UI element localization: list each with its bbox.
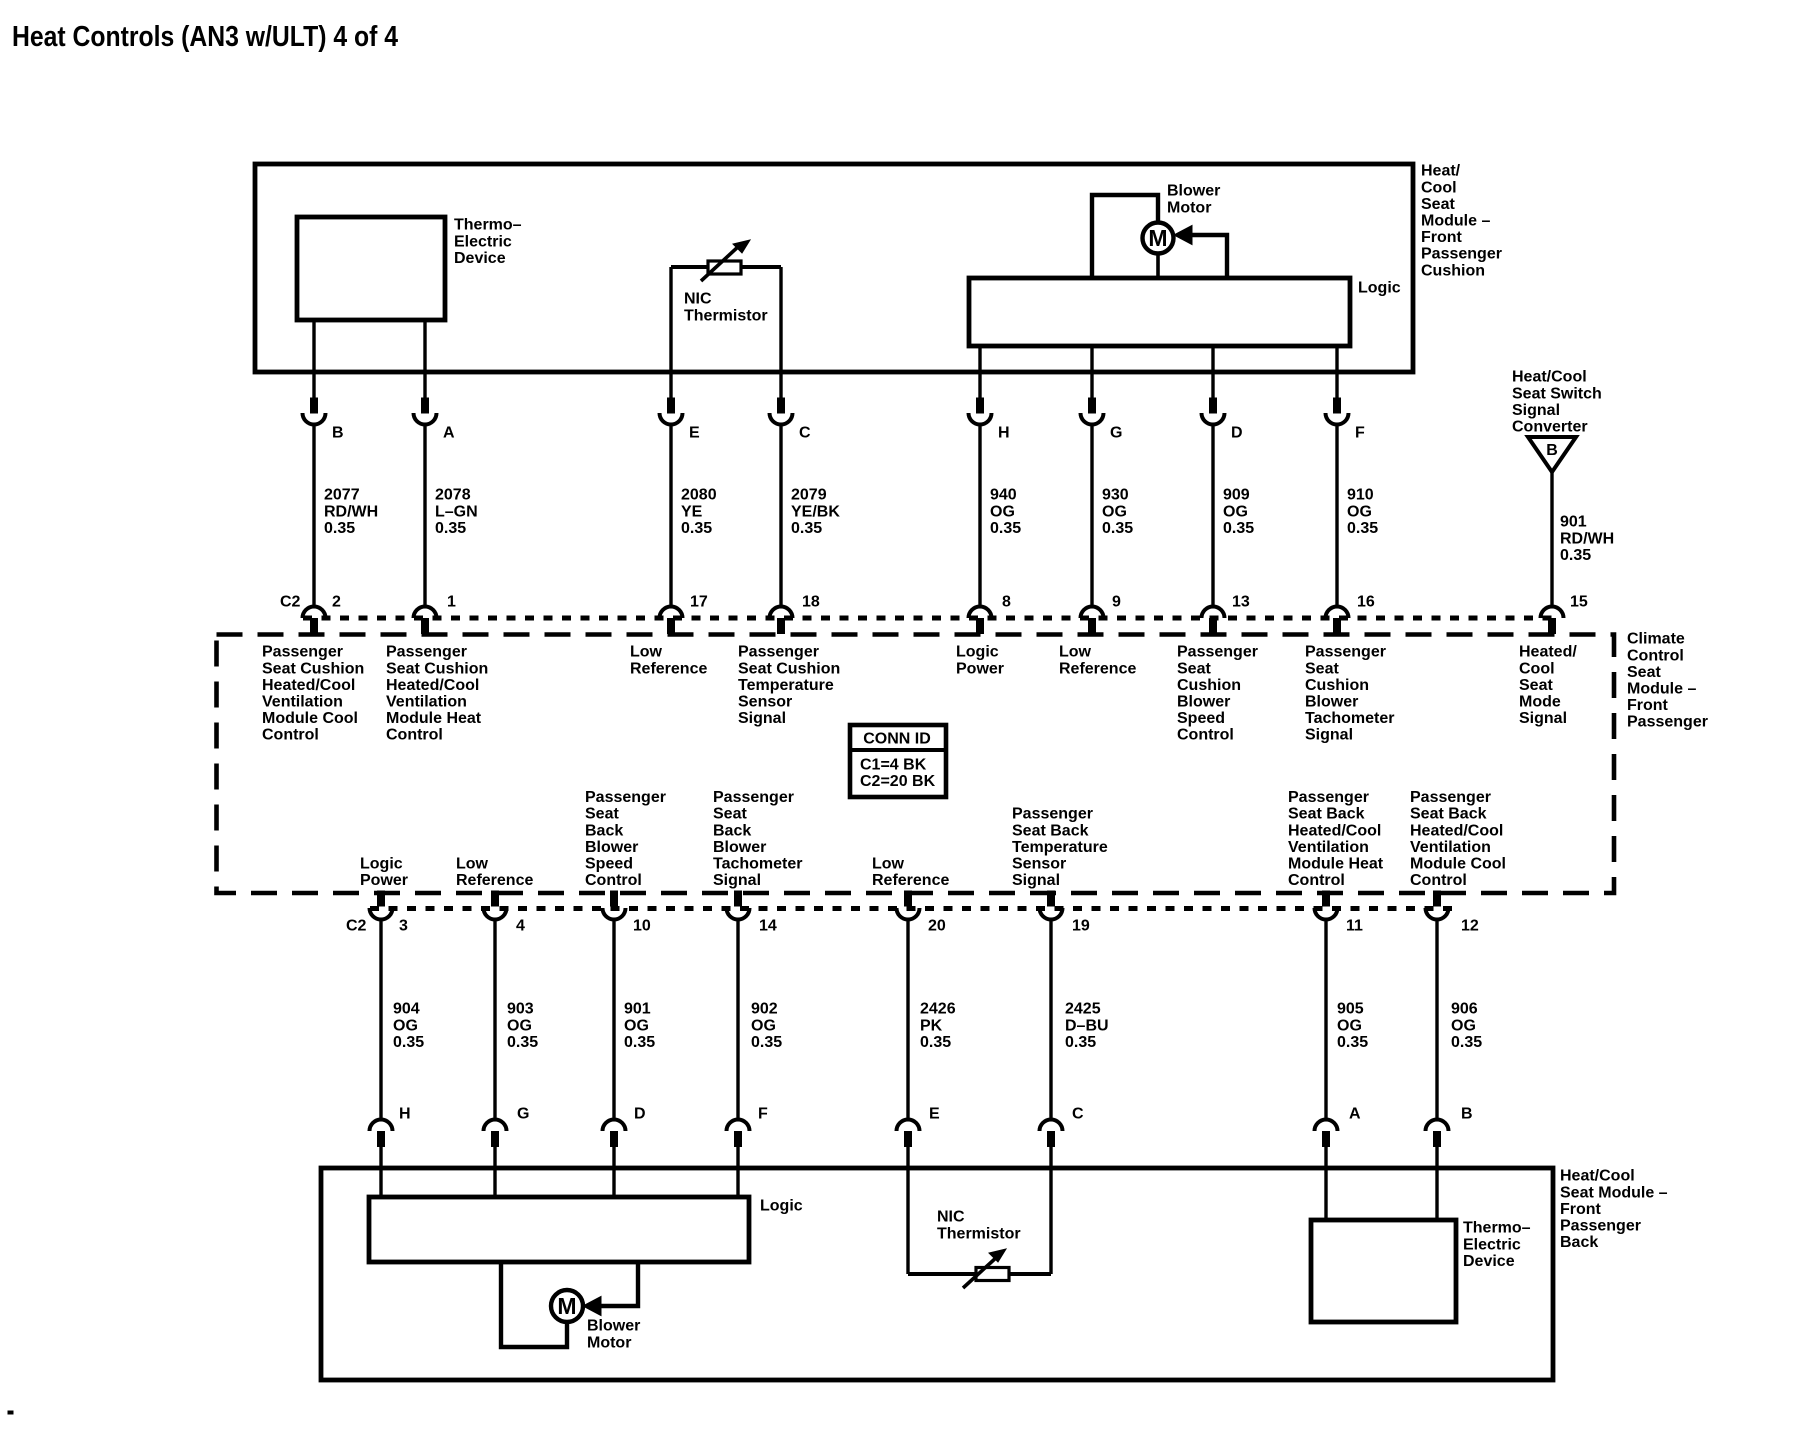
wire pin G to logic (back) bbox=[493, 1146, 496, 1197]
connector designator C2 (row 2) bbox=[346, 918, 367, 935]
pin number 17 bbox=[690, 594, 708, 611]
svg-text:YE/BK: YE/BK bbox=[791, 503, 840, 520]
label Logic (cushion) bbox=[1358, 280, 1401, 297]
svg-text:901: 901 bbox=[1560, 514, 1587, 531]
pin letter C (bottom) bbox=[1072, 1106, 1084, 1123]
wire label 940 OG 0.35 bbox=[990, 487, 1021, 537]
svg-text:F: F bbox=[1355, 425, 1365, 442]
net label Low Reference bbox=[456, 856, 533, 890]
svg-text:RD/WH: RD/WH bbox=[1560, 530, 1614, 547]
svg-text:Electric: Electric bbox=[454, 233, 512, 250]
svg-text:10: 10 bbox=[633, 918, 651, 935]
connector pin 12 (climate module row 2) bbox=[1426, 891, 1449, 920]
svg-text:0.35: 0.35 bbox=[990, 520, 1021, 537]
svg-text:RD/WH: RD/WH bbox=[324, 503, 378, 520]
svg-text:0.35: 0.35 bbox=[507, 1034, 538, 1051]
svg-text:F: F bbox=[758, 1106, 768, 1123]
svg-text:NIC: NIC bbox=[937, 1209, 965, 1226]
svg-text:Motor: Motor bbox=[587, 1334, 631, 1351]
net label Passenger Seat Cushion Heated/Cool Ventilation Module Heat Control bbox=[386, 644, 488, 744]
wire RT1 pin C lead bbox=[779, 267, 782, 399]
svg-text:M: M bbox=[557, 1293, 576, 1319]
connector pin B (top module) bbox=[303, 398, 326, 425]
svg-text:Seat: Seat bbox=[1305, 660, 1339, 677]
svg-text:Module –: Module – bbox=[1421, 213, 1490, 230]
wire pin D to logic (back) bbox=[612, 1146, 615, 1197]
svg-text:OG: OG bbox=[1451, 1017, 1476, 1034]
wire 2080 YE bbox=[669, 425, 672, 609]
svg-text:C: C bbox=[1072, 1106, 1084, 1123]
svg-text:Cushion: Cushion bbox=[1305, 677, 1369, 694]
svg-text:YE: YE bbox=[681, 503, 703, 520]
svg-text:Front: Front bbox=[1421, 229, 1463, 246]
net label Passenger Seat Back Heated/Cool Ventilation Module Heat Control bbox=[1288, 789, 1384, 889]
svg-text:12: 12 bbox=[1461, 918, 1479, 935]
svg-text:Heated/Cool: Heated/Cool bbox=[1288, 822, 1381, 839]
pin letter C bbox=[799, 425, 811, 442]
svg-text:Control: Control bbox=[1288, 872, 1345, 889]
svg-text:B: B bbox=[332, 425, 344, 442]
connector pin 10 (climate module row 2) bbox=[603, 891, 626, 920]
connector pin 13 (climate module row 1) bbox=[1202, 607, 1225, 634]
wire RT1 pin E lead bbox=[669, 267, 672, 399]
svg-text:OG: OG bbox=[990, 503, 1015, 520]
label Blower Motor (cushion) bbox=[1167, 183, 1220, 217]
svg-text:Seat Cushion: Seat Cushion bbox=[262, 660, 364, 677]
svg-text:Passenger: Passenger bbox=[585, 789, 666, 806]
svg-text:0.35: 0.35 bbox=[624, 1034, 655, 1051]
svg-text:Logic: Logic bbox=[956, 644, 999, 661]
in-line connector C2 row 1 (dotted) bbox=[303, 616, 1560, 621]
pin number 3 bbox=[399, 918, 408, 935]
svg-text:8: 8 bbox=[1002, 594, 1011, 611]
svg-text:910: 910 bbox=[1347, 487, 1374, 504]
wire label 901 RD/WH 0.35 bbox=[1560, 514, 1614, 564]
svg-text:940: 940 bbox=[990, 487, 1017, 504]
svg-text:Reference: Reference bbox=[456, 872, 533, 889]
connector pin D (bottom module) bbox=[603, 1120, 626, 1147]
wire TED2 pin B lead bbox=[1435, 1146, 1438, 1220]
svg-text:Low: Low bbox=[1059, 644, 1092, 661]
connector pin 15 (climate module row 1) bbox=[1541, 607, 1564, 634]
svg-text:Passenger: Passenger bbox=[386, 644, 467, 661]
svg-text:0.35: 0.35 bbox=[1223, 520, 1254, 537]
svg-text:Heated/Cool: Heated/Cool bbox=[386, 677, 479, 694]
module box U1 Heat/Cool Seat Module - Front Passenger Cushion bbox=[255, 164, 1413, 372]
svg-text:Seat Back: Seat Back bbox=[1012, 822, 1089, 839]
net label Passenger Seat Back Heated/Cool Ventilation Module Cool Control bbox=[1410, 789, 1506, 889]
svg-text:OG: OG bbox=[1347, 503, 1372, 520]
svg-text:Seat: Seat bbox=[585, 806, 619, 823]
svg-text:2078: 2078 bbox=[435, 487, 471, 504]
pin number 12 bbox=[1461, 918, 1479, 935]
svg-text:D: D bbox=[634, 1106, 646, 1123]
pin number 13 bbox=[1232, 594, 1250, 611]
pin number 10 bbox=[633, 918, 651, 935]
svg-text:0.35: 0.35 bbox=[1102, 520, 1133, 537]
thermistor RT1 NIC Thermistor (cushion) bbox=[671, 240, 781, 281]
pin letter A bbox=[443, 425, 455, 442]
connector pin F (bottom module) bbox=[727, 1119, 750, 1146]
svg-text:Blower: Blower bbox=[585, 839, 638, 856]
svg-text:E: E bbox=[929, 1106, 940, 1123]
svg-text:Thermo–: Thermo– bbox=[1463, 1220, 1531, 1237]
label Climate Control Seat Module - Front Passenger bbox=[1627, 631, 1708, 731]
pin number 11 bbox=[1346, 918, 1363, 935]
wire 903 OG bbox=[493, 920, 496, 1121]
svg-text:Ventilation: Ventilation bbox=[1288, 839, 1369, 856]
title Heat Controls (AN3 w/ULT) 4 of 4 bbox=[12, 21, 398, 53]
svg-text:0.35: 0.35 bbox=[1337, 1034, 1368, 1051]
svg-text:Module Cool: Module Cool bbox=[1410, 856, 1506, 873]
svg-text:NIC: NIC bbox=[684, 291, 712, 308]
svg-text:17: 17 bbox=[690, 594, 708, 611]
pin number 18 bbox=[802, 594, 820, 611]
svg-text:Low: Low bbox=[630, 644, 663, 661]
net label Passenger Seat Cushion Heated/Cool Ventilation Module Cool Control bbox=[262, 644, 364, 744]
svg-text:Cool: Cool bbox=[1519, 660, 1555, 677]
module box U3 Heat/Cool Seat Module - Front Passenger Back bbox=[321, 1168, 1553, 1380]
net label Passenger Seat Cushion Blower Speed Control bbox=[1177, 644, 1258, 744]
thermo-electric device TED1 (cushion) bbox=[297, 217, 445, 320]
connector pin C (top module) bbox=[770, 398, 793, 425]
svg-text:E: E bbox=[689, 425, 700, 442]
svg-text:Device: Device bbox=[1463, 1253, 1515, 1270]
svg-text:Thermistor: Thermistor bbox=[937, 1225, 1021, 1242]
svg-text:G: G bbox=[517, 1106, 529, 1123]
wire label 903 OG 0.35 bbox=[507, 1001, 538, 1051]
stray period mark bbox=[8, 1411, 13, 1414]
wire RT2 pin C lead bbox=[1049, 1146, 1052, 1274]
connector pin G (top module) bbox=[1081, 398, 1104, 425]
wire label 930 OG 0.35 bbox=[1102, 487, 1133, 537]
svg-text:L–GN: L–GN bbox=[435, 503, 478, 520]
svg-text:Sensor: Sensor bbox=[1012, 856, 1066, 873]
wire 901 OG bbox=[612, 920, 615, 1121]
svg-text:Passenger: Passenger bbox=[1560, 1218, 1641, 1235]
svg-text:Seat Switch: Seat Switch bbox=[1512, 385, 1602, 402]
svg-text:0.35: 0.35 bbox=[751, 1034, 782, 1051]
svg-text:Heated/Cool: Heated/Cool bbox=[262, 677, 355, 694]
wire label 902 OG 0.35 bbox=[751, 1001, 782, 1051]
pin number 16 bbox=[1357, 594, 1375, 611]
wire 909 OG bbox=[1211, 425, 1214, 609]
wire logic pin F lead bbox=[1335, 346, 1338, 399]
svg-text:Back: Back bbox=[1560, 1234, 1598, 1251]
svg-text:13: 13 bbox=[1232, 594, 1250, 611]
pin number 8 bbox=[1002, 594, 1011, 611]
label Heat/Cool Seat Module - Front Passenger Cushion bbox=[1421, 163, 1502, 280]
pin number 20 bbox=[928, 918, 946, 935]
pin letter H (bottom) bbox=[399, 1106, 411, 1123]
svg-text:Passenger: Passenger bbox=[738, 644, 819, 661]
pin letter G bbox=[1110, 425, 1122, 442]
label Heat/Cool Seat Module - Front Passenger Back bbox=[1560, 1168, 1668, 1251]
svg-text:Low: Low bbox=[872, 856, 905, 873]
svg-text:Logic: Logic bbox=[760, 1198, 803, 1215]
svg-text:2079: 2079 bbox=[791, 487, 827, 504]
wire logic pin D lead bbox=[1211, 346, 1214, 399]
svg-text:909: 909 bbox=[1223, 487, 1250, 504]
connector pin H (top module) bbox=[969, 398, 992, 425]
thermistor RT2 NIC Thermistor (back) bbox=[908, 1249, 1051, 1288]
connector pin B (bottom module) bbox=[1426, 1120, 1449, 1147]
pin number 14 bbox=[759, 918, 777, 935]
svg-text:930: 930 bbox=[1102, 487, 1129, 504]
wire M1 bottom lead bbox=[1156, 253, 1160, 279]
svg-text:Blower: Blower bbox=[1167, 183, 1220, 200]
connector pin 14 (climate module row 2) bbox=[727, 891, 750, 920]
net label Logic Power bbox=[956, 644, 1004, 678]
svg-text:Temperature: Temperature bbox=[738, 677, 834, 694]
connector pin 17 (climate module row 1) bbox=[660, 607, 683, 634]
svg-text:Tachometer: Tachometer bbox=[713, 856, 803, 873]
svg-text:Cushion: Cushion bbox=[1421, 262, 1485, 279]
svg-text:904: 904 bbox=[393, 1001, 420, 1018]
wire 2078 L–GN bbox=[423, 425, 426, 609]
net label Passenger Seat Back Blower Tachometer Signal bbox=[713, 789, 803, 889]
svg-text:OG: OG bbox=[1102, 503, 1127, 520]
svg-text:Thermo–: Thermo– bbox=[454, 217, 522, 234]
net label Passenger Seat Cushion Temperature Sensor Signal bbox=[738, 644, 840, 727]
wire label 909 OG 0.35 bbox=[1223, 487, 1254, 537]
wire RT2 pin E lead bbox=[906, 1146, 909, 1274]
wire TED1 pin B lead bbox=[312, 320, 315, 399]
connector pin 3 (climate module row 2) bbox=[370, 891, 393, 920]
svg-text:M: M bbox=[1148, 225, 1167, 251]
svg-text:Control: Control bbox=[1627, 647, 1684, 664]
svg-text:Logic: Logic bbox=[1358, 280, 1401, 297]
connector pin F (top module) bbox=[1326, 398, 1349, 425]
svg-text:Passenger: Passenger bbox=[1627, 714, 1708, 731]
wire 906 OG bbox=[1435, 920, 1438, 1121]
wire 902 OG bbox=[736, 920, 739, 1121]
connector pin E (top module) bbox=[660, 398, 683, 425]
svg-text:G: G bbox=[1110, 425, 1122, 442]
svg-text:B: B bbox=[1461, 1106, 1473, 1123]
svg-text:Seat: Seat bbox=[1421, 196, 1455, 213]
svg-text:16: 16 bbox=[1357, 594, 1375, 611]
net label Passenger Seat Back Blower Speed Control bbox=[585, 789, 666, 889]
svg-text:Reference: Reference bbox=[630, 660, 707, 677]
svg-text:Seat Cushion: Seat Cushion bbox=[386, 660, 488, 677]
net label Low Reference bbox=[1059, 644, 1136, 678]
svg-text:Power: Power bbox=[956, 660, 1004, 677]
svg-text:Back: Back bbox=[585, 822, 623, 839]
svg-text:Blower: Blower bbox=[587, 1318, 640, 1335]
logic block U3-logic (back) bbox=[369, 1197, 749, 1262]
connector pin 1 (climate module row 1) bbox=[414, 607, 437, 634]
connector pin A (bottom module) bbox=[1315, 1120, 1338, 1147]
svg-text:2080: 2080 bbox=[681, 487, 717, 504]
svg-text:Ventilation: Ventilation bbox=[386, 694, 467, 711]
svg-text:19: 19 bbox=[1072, 918, 1090, 935]
svg-text:Signal: Signal bbox=[713, 872, 761, 889]
svg-text:C2: C2 bbox=[280, 594, 301, 611]
net label Logic Power bbox=[360, 856, 408, 890]
connector pin E (bottom module) bbox=[897, 1120, 920, 1147]
svg-text:4: 4 bbox=[516, 918, 525, 935]
svg-text:CONN ID: CONN ID bbox=[863, 731, 931, 748]
svg-text:Passenger: Passenger bbox=[1012, 806, 1093, 823]
connector pin 18 (climate module row 1) bbox=[770, 607, 793, 634]
net label Low Reference bbox=[872, 856, 949, 890]
svg-text:0.35: 0.35 bbox=[681, 520, 712, 537]
wire logic pin H lead bbox=[978, 346, 981, 399]
svg-text:OG: OG bbox=[1223, 503, 1248, 520]
svg-text:Passenger: Passenger bbox=[1288, 789, 1369, 806]
svg-text:Tachometer: Tachometer bbox=[1305, 710, 1395, 727]
svg-text:A: A bbox=[1349, 1106, 1361, 1123]
svg-text:0.35: 0.35 bbox=[393, 1034, 424, 1051]
svg-text:0.35: 0.35 bbox=[920, 1034, 951, 1051]
label Blower Motor (back) bbox=[587, 1318, 640, 1352]
svg-text:Module Heat: Module Heat bbox=[1288, 856, 1384, 873]
svg-text:Device: Device bbox=[454, 250, 506, 267]
svg-text:Electric: Electric bbox=[1463, 1236, 1521, 1253]
svg-text:Ventilation: Ventilation bbox=[1410, 839, 1491, 856]
svg-text:Reference: Reference bbox=[872, 872, 949, 889]
svg-text:2425: 2425 bbox=[1065, 1001, 1101, 1018]
thermo-electric device TED2 (back) bbox=[1311, 1220, 1456, 1322]
wire M2 control feed with arrow bbox=[583, 1262, 638, 1316]
net label Low Reference bbox=[630, 644, 707, 678]
svg-text:Passenger: Passenger bbox=[1410, 789, 1491, 806]
wire 901 from converter bbox=[1550, 472, 1553, 608]
wire label 904 OG 0.35 bbox=[393, 1001, 424, 1051]
svg-text:9: 9 bbox=[1112, 594, 1121, 611]
wire 2426 PK bbox=[906, 920, 909, 1121]
svg-text:Seat: Seat bbox=[1177, 660, 1211, 677]
wire label 2080 YE 0.35 bbox=[681, 487, 717, 537]
svg-text:Seat Back: Seat Back bbox=[1288, 806, 1365, 823]
svg-text:Back: Back bbox=[713, 822, 751, 839]
pin letter A (bottom) bbox=[1349, 1106, 1361, 1123]
svg-text:1: 1 bbox=[447, 594, 456, 611]
svg-text:Blower: Blower bbox=[1177, 694, 1230, 711]
wire label 905 OG 0.35 bbox=[1337, 1001, 1368, 1051]
svg-text:Signal: Signal bbox=[1012, 872, 1060, 889]
connector pin 2 (climate module row 1) bbox=[303, 607, 326, 634]
svg-text:Control: Control bbox=[386, 727, 443, 744]
svg-text:Seat Module –: Seat Module – bbox=[1560, 1184, 1668, 1201]
svg-text:Passenger: Passenger bbox=[1421, 246, 1502, 263]
pin letter E bbox=[689, 425, 700, 442]
wire 905 OG bbox=[1324, 920, 1327, 1121]
wire label 901 OG 0.35 bbox=[624, 1001, 655, 1051]
svg-text:0.35: 0.35 bbox=[435, 520, 466, 537]
logic block U1-logic (cushion) bbox=[969, 278, 1350, 346]
wire label 2425 D–BU 0.35 bbox=[1065, 1001, 1109, 1051]
svg-text:Passenger: Passenger bbox=[1177, 644, 1258, 661]
wire logic pin G lead bbox=[1090, 346, 1093, 399]
svg-text:Heat/Cool: Heat/Cool bbox=[1512, 369, 1587, 386]
label Logic (back) bbox=[760, 1198, 803, 1215]
svg-text:0.35: 0.35 bbox=[1065, 1034, 1096, 1051]
pin letter B bbox=[332, 425, 344, 442]
svg-text:H: H bbox=[399, 1106, 411, 1123]
svg-text:Ventilation: Ventilation bbox=[262, 694, 343, 711]
wire 2425 D–BU bbox=[1049, 920, 1052, 1121]
wire M2 supply loop bbox=[501, 1262, 567, 1347]
svg-text:Cool: Cool bbox=[1421, 179, 1457, 196]
in-line connector C2 row 2 (dotted) bbox=[370, 906, 1452, 911]
signal converter B (triangle symbol) bbox=[1528, 437, 1576, 472]
connector pin 19 (climate module row 2) bbox=[1040, 891, 1063, 920]
svg-text:Passenger: Passenger bbox=[262, 644, 343, 661]
svg-text:903: 903 bbox=[507, 1001, 534, 1018]
connector pin 9 (climate module row 1) bbox=[1081, 607, 1104, 634]
svg-text:15: 15 bbox=[1570, 594, 1588, 611]
svg-text:Control: Control bbox=[1177, 727, 1234, 744]
pin number 9 bbox=[1112, 594, 1121, 611]
svg-text:14: 14 bbox=[759, 918, 777, 935]
pin letter G (bottom) bbox=[517, 1106, 529, 1123]
connector pin H (bottom module) bbox=[370, 1120, 393, 1147]
svg-text:0.35: 0.35 bbox=[1560, 547, 1591, 564]
svg-text:0.35: 0.35 bbox=[791, 520, 822, 537]
wire pin F to logic (back) bbox=[736, 1146, 739, 1197]
svg-text:Heated/Cool: Heated/Cool bbox=[1410, 822, 1503, 839]
wire 2079 YE/BK bbox=[779, 425, 782, 609]
svg-text:0.35: 0.35 bbox=[324, 520, 355, 537]
pin number 2 bbox=[332, 594, 341, 611]
svg-text:Module –: Module – bbox=[1627, 681, 1696, 698]
svg-text:Seat Back: Seat Back bbox=[1410, 806, 1487, 823]
pin number 15 bbox=[1570, 594, 1588, 611]
connector pin G (bottom module) bbox=[484, 1120, 507, 1147]
net label Passenger Seat Back Temperature Sensor Signal bbox=[1012, 806, 1108, 889]
pin letter D bbox=[1231, 425, 1243, 442]
wire label 2078 L–GN 0.35 bbox=[435, 487, 478, 537]
wire label 2079 YE/BK 0.35 bbox=[791, 487, 840, 537]
wire 940 OG bbox=[978, 425, 981, 609]
wire pin H to logic (back) bbox=[379, 1146, 382, 1197]
svg-text:Sensor: Sensor bbox=[738, 694, 792, 711]
svg-text:B: B bbox=[1546, 442, 1558, 459]
svg-text:Logic: Logic bbox=[360, 856, 403, 873]
wire label 2077 RD/WH 0.35 bbox=[324, 487, 378, 537]
svg-text:Motor: Motor bbox=[1167, 199, 1211, 216]
svg-text:Climate: Climate bbox=[1627, 631, 1685, 648]
svg-text:Heated/: Heated/ bbox=[1519, 644, 1577, 661]
wire 904 OG bbox=[379, 920, 382, 1121]
wire label 906 OG 0.35 bbox=[1451, 1001, 1482, 1051]
wire 930 OG bbox=[1090, 425, 1093, 609]
pin letter F (bottom) bbox=[758, 1106, 768, 1123]
svg-text:Seat: Seat bbox=[1627, 664, 1661, 681]
svg-text:Reference: Reference bbox=[1059, 660, 1136, 677]
wire 2077 RD/WH bbox=[312, 425, 315, 609]
svg-text:Signal: Signal bbox=[1519, 710, 1567, 727]
pin number 19 bbox=[1072, 918, 1090, 935]
svg-text:D–BU: D–BU bbox=[1065, 1017, 1109, 1034]
svg-text:Blower: Blower bbox=[713, 839, 766, 856]
svg-text:901: 901 bbox=[624, 1001, 651, 1018]
svg-text:PK: PK bbox=[920, 1017, 943, 1034]
svg-text:C2: C2 bbox=[346, 918, 367, 935]
svg-text:A: A bbox=[443, 425, 455, 442]
svg-text:Blower: Blower bbox=[1305, 694, 1358, 711]
label Thermo-Electric Device (back) bbox=[1463, 1220, 1531, 1270]
blower motor M1 (cushion) bbox=[1143, 223, 1174, 254]
wire M1 supply loop bbox=[1092, 195, 1158, 278]
pin number 4 bbox=[516, 918, 525, 935]
connector pin D (top module) bbox=[1202, 398, 1225, 425]
wire label 910 OG 0.35 bbox=[1347, 487, 1378, 537]
wire 910 OG bbox=[1335, 425, 1338, 609]
svg-text:Signal: Signal bbox=[1512, 402, 1560, 419]
